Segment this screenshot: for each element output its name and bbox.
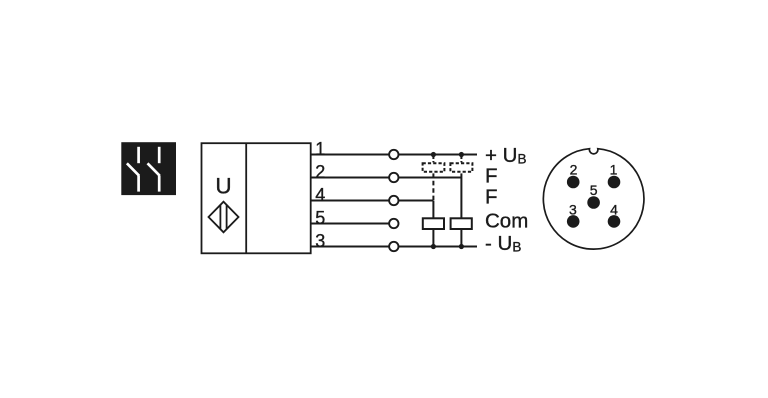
svg-text:Com: Com — [485, 210, 528, 233]
svg-text:4: 4 — [610, 201, 618, 217]
svg-text:F: F — [485, 165, 498, 188]
svg-text:- UB: - UB — [485, 232, 521, 255]
svg-text:1: 1 — [315, 139, 325, 159]
svg-text:F: F — [485, 186, 498, 209]
svg-text:2: 2 — [315, 162, 325, 182]
svg-text:U: U — [215, 173, 231, 198]
svg-text:3: 3 — [569, 201, 577, 217]
svg-text:2: 2 — [570, 161, 578, 177]
svg-text:3: 3 — [315, 231, 325, 251]
svg-text:5: 5 — [590, 182, 598, 198]
svg-text:1: 1 — [610, 161, 618, 177]
svg-text:5: 5 — [315, 208, 325, 228]
svg-text:4: 4 — [315, 185, 325, 205]
